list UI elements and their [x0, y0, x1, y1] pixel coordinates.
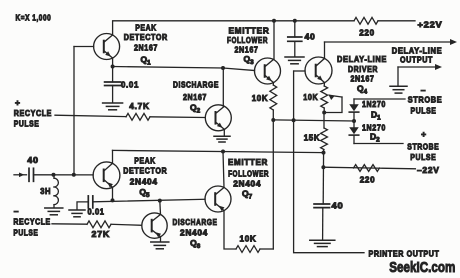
svg-text:STROBE: STROBE: [407, 141, 439, 151]
svg-text:PRINTER OUTPUT: PRINTER OUTPUT: [369, 249, 440, 259]
svg-text:PULSE: PULSE: [411, 105, 437, 115]
svg-text:PEAK: PEAK: [135, 22, 157, 32]
svg-text:PEAK: PEAK: [134, 156, 156, 166]
svg-text:10K: 10K: [252, 93, 269, 103]
svg-text:DISCHARGE: DISCHARGE: [173, 217, 218, 227]
svg-text:2N404: 2N404: [130, 177, 158, 187]
svg-text:PULSE: PULSE: [410, 152, 436, 162]
svg-text:2N167: 2N167: [183, 92, 207, 102]
svg-text:40: 40: [305, 31, 316, 41]
svg-text:–22V: –22V: [417, 165, 440, 175]
svg-text:SeekIC.com: SeekIC.com: [389, 259, 455, 276]
svg-text:10K: 10K: [303, 92, 318, 102]
svg-text:DETECTOR: DETECTOR: [123, 166, 167, 176]
svg-text:DISCHARGE: DISCHARGE: [173, 79, 219, 89]
svg-text:+22V: +22V: [418, 19, 443, 29]
svg-text:–: –: [14, 206, 19, 216]
svg-text:0.01: 0.01: [121, 79, 139, 89]
svg-text:K=X 1,000: K=X 1,000: [16, 13, 52, 23]
svg-text:–: –: [421, 85, 426, 95]
svg-text:FOLLOWER: FOLLOWER: [228, 169, 269, 179]
svg-text:15K: 15K: [304, 133, 321, 143]
svg-text:DELAY-LINE: DELAY-LINE: [337, 54, 387, 64]
svg-text:DRIVER: DRIVER: [348, 64, 378, 74]
svg-text:STROBE: STROBE: [408, 95, 443, 105]
svg-text:+: +: [421, 129, 427, 139]
svg-text:2N167: 2N167: [134, 42, 158, 52]
svg-text:RECYCLE: RECYCLE: [14, 108, 52, 118]
svg-text:EMITTER: EMITTER: [228, 157, 268, 167]
svg-text:40: 40: [332, 201, 344, 211]
svg-text:220: 220: [360, 175, 376, 185]
svg-text:PULSE: PULSE: [13, 228, 38, 238]
svg-text:2N404: 2N404: [180, 228, 208, 238]
svg-text:EMITTER: EMITTER: [229, 26, 270, 36]
svg-text:PULSE: PULSE: [14, 119, 40, 129]
svg-text:OUTPUT: OUTPUT: [400, 55, 433, 65]
svg-text:40: 40: [27, 155, 39, 165]
svg-text:RECYCLE: RECYCLE: [13, 217, 50, 227]
svg-text:0.01: 0.01: [88, 207, 105, 217]
svg-text:220: 220: [359, 27, 375, 37]
svg-text:3H: 3H: [40, 186, 51, 196]
svg-text:DETECTOR: DETECTOR: [124, 32, 168, 42]
svg-text:+: +: [15, 98, 21, 108]
svg-text:4.7K: 4.7K: [129, 101, 150, 111]
svg-text:10K: 10K: [240, 234, 257, 244]
svg-text:1N270: 1N270: [362, 99, 386, 109]
svg-text:27K: 27K: [92, 229, 111, 239]
svg-text:2N167: 2N167: [351, 74, 375, 84]
svg-text:2N404: 2N404: [233, 179, 261, 189]
svg-text:2N167: 2N167: [235, 44, 259, 54]
